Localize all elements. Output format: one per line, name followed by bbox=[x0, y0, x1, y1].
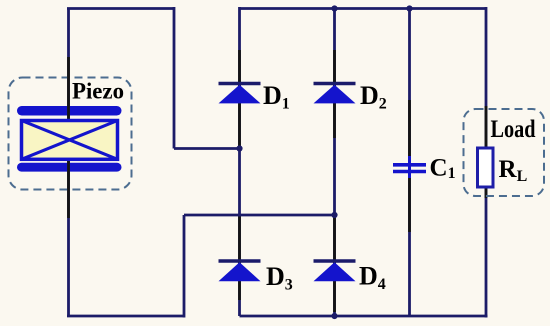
svg-text:D1: D1 bbox=[263, 81, 290, 113]
node B: junction dot D2-D4 midpoint bbox=[331, 212, 337, 218]
wire: bridge top rail y=8.5 bbox=[240, 7, 487, 10]
wire: piezo lead (black, over electrode bars) bbox=[67, 57, 70, 218]
piezo bottom electrode bar bbox=[17, 163, 122, 172]
wire: D1/D3 column x=239.5 bbox=[238, 7, 241, 316]
wire: D3 lead (black) bbox=[238, 217, 241, 301]
wire: D1 lead (black) bbox=[238, 50, 241, 147]
diode D4 bbox=[314, 261, 356, 281]
load dashed enclosure bbox=[464, 109, 545, 196]
svg-text:D4: D4 bbox=[359, 262, 386, 294]
svg-text:C1: C1 bbox=[430, 155, 456, 183]
piezo top electrode bar bbox=[17, 106, 122, 116]
wire: D2/D4 column x=334.5 bbox=[333, 9, 336, 317]
wire: up vertical x=184 bbox=[183, 215, 186, 318]
wire: bottom-left horizontal y=316 bbox=[67, 315, 184, 318]
wire: C1 bottom lead (black) bbox=[408, 178, 411, 232]
svg-text:D2: D2 bbox=[360, 81, 387, 113]
wire: horizontal into node B y=215 (crosses D1/D3 column) bbox=[184, 214, 335, 217]
svg-text:D3: D3 bbox=[266, 262, 293, 294]
wire: D4 lead (black) bbox=[333, 217, 336, 313]
piezo ceramic body (crossed rectangle) bbox=[22, 121, 118, 160]
wire: C1 top lead (black) bbox=[408, 100, 411, 156]
node: junction dot bottom rail / D4 column bbox=[331, 313, 337, 319]
resistor RL bbox=[478, 148, 494, 187]
diode D2 bbox=[314, 84, 356, 104]
wire: right column (load branch) x=486 bbox=[485, 7, 488, 318]
node A: junction dot D1-D3 midpoint bbox=[236, 145, 242, 151]
node: junction dot top rail / capacitor column bbox=[406, 5, 412, 11]
svg-text:Load: Load bbox=[491, 116, 536, 143]
wire: step-down vertical x=174 bbox=[173, 7, 176, 149]
wire: capacitor column x=409.5 bbox=[408, 9, 411, 317]
wire: RL top lead (black) bbox=[485, 106, 488, 150]
diode D3 bbox=[219, 261, 261, 281]
diode D1 bbox=[219, 84, 261, 104]
wire: D2 lead (black) bbox=[333, 50, 336, 138]
wire: horizontal into node A y=148.5 bbox=[174, 147, 240, 150]
piezo dashed enclosure bbox=[9, 78, 132, 190]
wire: RL bottom lead (black) bbox=[485, 185, 488, 198]
wire: top-left horizontal segment y=8.5 bbox=[67, 7, 174, 10]
svg-text:RL: RL bbox=[499, 156, 528, 185]
capacitor C1 bbox=[393, 156, 426, 178]
wire: bridge bottom rail y=316 bbox=[240, 315, 488, 318]
svg-text:Piezo: Piezo bbox=[72, 79, 124, 105]
node: junction dot top rail / D2 column bbox=[331, 5, 337, 11]
wire: left vertical branch (piezo branch) x=68.5 bbox=[67, 9, 70, 317]
